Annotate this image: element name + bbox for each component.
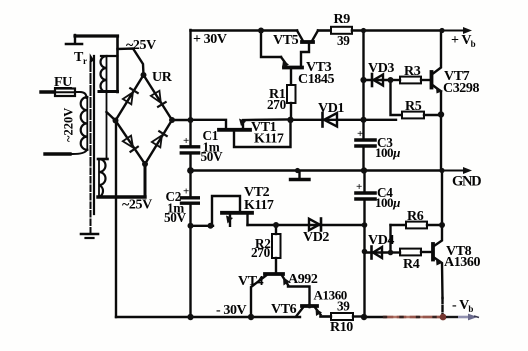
svg-text:VT5: VT5	[273, 33, 299, 48]
svg-text:- Vb: - Vb	[452, 298, 473, 314]
svg-text:+: +	[356, 181, 362, 193]
svg-text:K117: K117	[254, 132, 284, 147]
svg-text:A992: A992	[288, 272, 318, 287]
svg-text:VD1: VD1	[318, 101, 344, 116]
svg-text:C3298: C3298	[443, 81, 480, 96]
svg-text:R6: R6	[407, 209, 424, 224]
svg-text:50V: 50V	[201, 149, 224, 164]
svg-text:~220V: ~220V	[62, 108, 76, 142]
svg-text:VD3: VD3	[368, 61, 394, 76]
svg-text:270: 270	[251, 245, 271, 260]
svg-text:+ 30V: + 30V	[193, 32, 227, 47]
svg-text:R5: R5	[405, 99, 422, 114]
svg-text:+: +	[183, 186, 189, 198]
svg-text:100µ: 100µ	[375, 145, 400, 160]
svg-text:R4: R4	[403, 257, 420, 272]
svg-text:Tr: Tr	[74, 50, 87, 66]
svg-text:VD4: VD4	[368, 233, 394, 248]
svg-text:C1845: C1845	[298, 72, 335, 87]
svg-text:K117: K117	[244, 198, 274, 213]
svg-text:270: 270	[267, 97, 287, 112]
svg-text:UR: UR	[152, 70, 173, 85]
svg-text:50V: 50V	[164, 210, 187, 225]
svg-text:39: 39	[337, 299, 350, 314]
svg-text:VT4: VT4	[238, 274, 264, 289]
svg-text:+: +	[357, 128, 363, 140]
svg-text:VT6: VT6	[271, 302, 297, 317]
svg-text:R3: R3	[404, 64, 421, 79]
svg-text:FU: FU	[54, 75, 72, 90]
svg-text:100µ: 100µ	[375, 195, 400, 210]
svg-text:39: 39	[337, 33, 350, 48]
svg-text:VD2: VD2	[303, 230, 329, 245]
svg-text:~25V: ~25V	[126, 38, 156, 53]
svg-text:+: +	[183, 135, 189, 147]
svg-text:R9: R9	[334, 12, 351, 27]
svg-text:+ Vb: + Vb	[451, 33, 476, 49]
svg-text:- 30V: - 30V	[216, 303, 247, 318]
svg-text:~25V: ~25V	[122, 198, 152, 213]
svg-text:GND: GND	[452, 174, 481, 190]
svg-text:R10: R10	[330, 320, 353, 335]
svg-text:A1360: A1360	[444, 255, 481, 270]
